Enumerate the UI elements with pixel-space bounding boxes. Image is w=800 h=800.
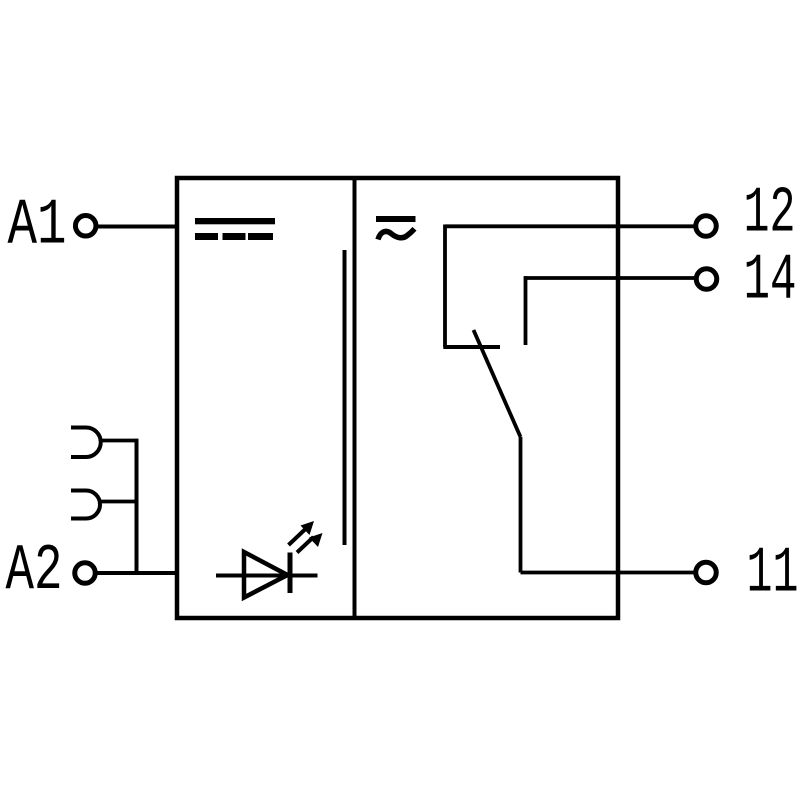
isolation barrier line <box>343 250 347 545</box>
svg-text:11: 11 <box>747 537 799 611</box>
relay module box outline <box>177 178 618 618</box>
wire 12 horizontal <box>445 224 694 228</box>
wire 14 vertical to open contact <box>524 276 528 345</box>
wire 11 horizontal <box>521 571 695 575</box>
wire bridge 2 to bus <box>100 500 138 504</box>
wire common vertical <box>519 437 523 573</box>
svg-text:12: 12 <box>744 177 796 251</box>
terminal circle 11 <box>696 562 717 583</box>
DC supply symbol dashed bar <box>195 233 273 240</box>
terminal circle 12 <box>696 216 717 237</box>
terminal circle 14 <box>696 269 717 290</box>
LED arrow 2 <box>297 533 323 553</box>
fixed contact bar 12 <box>443 345 500 349</box>
AC output symbol tilde <box>378 229 415 240</box>
wire 12 vertical to fixed contact <box>443 225 447 348</box>
LED triangle <box>244 552 288 598</box>
wire bridge 1 to bus <box>101 439 139 443</box>
svg-text:14: 14 <box>744 244 797 318</box>
wire A1 to box <box>96 225 177 229</box>
bus wire vertical <box>135 439 139 573</box>
LED anode/cathode line <box>216 574 318 578</box>
bridge terminal 2 <box>71 491 100 519</box>
LED cathode bar <box>288 553 293 594</box>
LED arrow 1 <box>289 521 315 545</box>
DC supply symbol solid bar <box>195 218 275 224</box>
wire 14 horizontal <box>524 276 694 280</box>
svg-text:A1: A1 <box>8 189 67 263</box>
terminal circle A2 <box>75 563 96 584</box>
svg-text:A2: A2 <box>6 534 63 608</box>
wire A2 to box <box>97 571 177 575</box>
AC output symbol bar <box>376 216 416 222</box>
terminal circle A1 <box>75 216 96 237</box>
divider between input and output sections <box>353 176 357 620</box>
bridge terminal 1 <box>71 428 101 458</box>
switch armature <box>474 330 521 437</box>
